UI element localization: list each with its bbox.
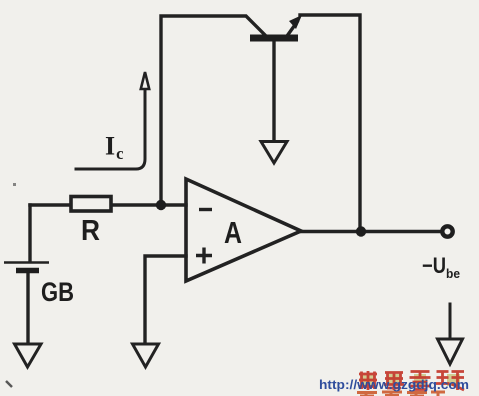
svg-text:−U: −U xyxy=(422,253,446,278)
svg-text:http://www.gzgdjq.com: http://www.gzgdjq.com xyxy=(319,378,469,392)
svg-text:be: be xyxy=(446,267,460,281)
svg-text:R: R xyxy=(81,215,100,247)
svg-text:A: A xyxy=(224,215,242,250)
svg-text:GB: GB xyxy=(41,277,74,307)
